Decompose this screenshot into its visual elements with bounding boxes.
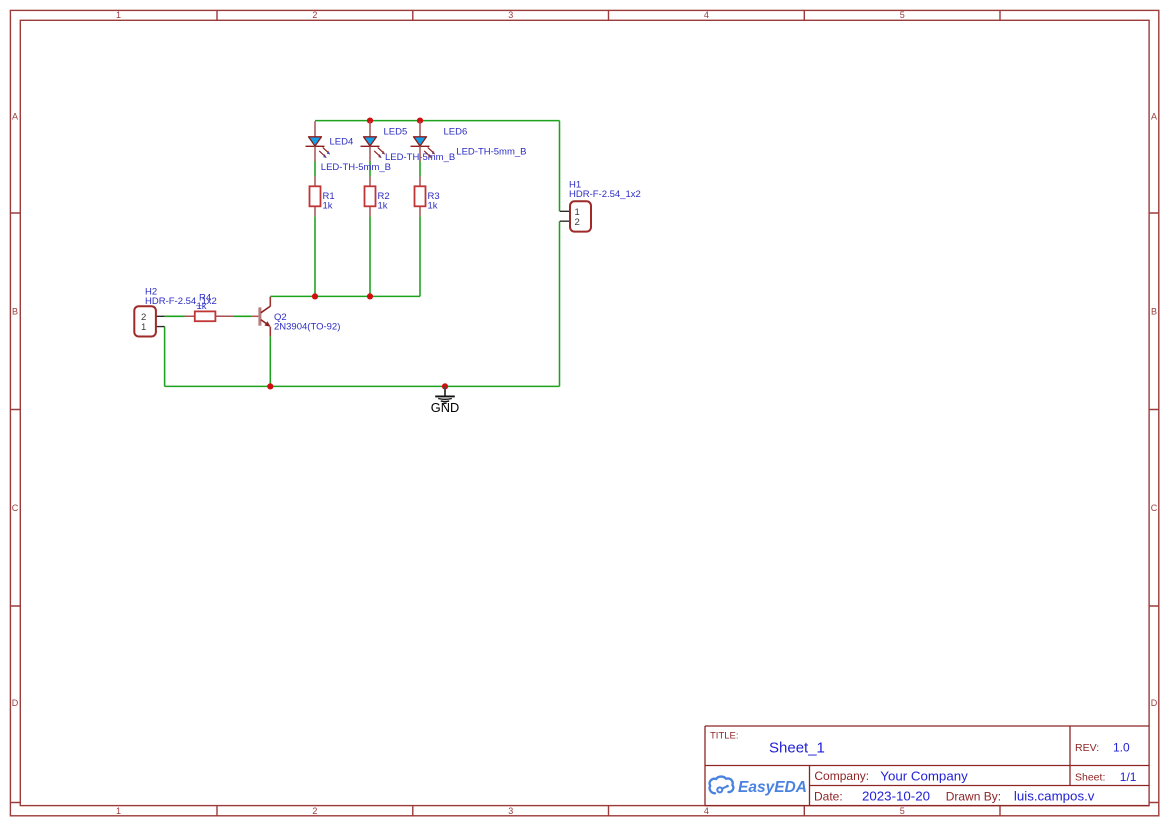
svg-text:D: D bbox=[12, 698, 19, 708]
svg-text:5: 5 bbox=[900, 10, 905, 20]
svg-text:Sheet:: Sheet: bbox=[1075, 772, 1105, 784]
svg-text:B: B bbox=[1151, 306, 1157, 316]
wire: LED4 cathode to R1 bbox=[314, 161, 316, 177]
svg-text:LED6: LED6 bbox=[444, 126, 468, 137]
LED LED6 bbox=[411, 121, 527, 161]
svg-text:4: 4 bbox=[704, 806, 709, 816]
title row divider bbox=[705, 765, 1149, 767]
svg-text:HDR-F-2.54_1x2: HDR-F-2.54_1x2 bbox=[569, 189, 641, 200]
logo cell divider bbox=[809, 766, 811, 806]
wire: H1 pin 2 down to ground bus bbox=[559, 221, 561, 386]
svg-text:1k: 1k bbox=[378, 201, 388, 212]
wire: collector bus bbox=[270, 295, 420, 297]
svg-text:GND: GND bbox=[431, 400, 459, 415]
wire: LED5 cathode to R2 bbox=[369, 161, 371, 177]
svg-text:C: C bbox=[12, 503, 19, 513]
svg-text:Your Company: Your Company bbox=[880, 768, 968, 783]
svg-text:3: 3 bbox=[508, 10, 513, 20]
svg-text:1k: 1k bbox=[323, 201, 333, 212]
svg-text:1.0: 1.0 bbox=[1113, 741, 1130, 755]
title block bbox=[705, 726, 1149, 806]
top ruler ticks bbox=[217, 10, 1000, 20]
svg-text:Drawn By:: Drawn By: bbox=[946, 789, 1001, 803]
svg-text:2: 2 bbox=[575, 217, 580, 228]
junction collector bus at R2 bbox=[367, 293, 373, 299]
junction ground bus at emitter bbox=[267, 383, 273, 389]
svg-text:Sheet_1: Sheet_1 bbox=[769, 740, 825, 757]
LED LED5 bbox=[361, 121, 456, 163]
junction collector bus at R1 bbox=[312, 293, 318, 299]
svg-text:1: 1 bbox=[116, 10, 121, 20]
resistor R4 bbox=[185, 292, 234, 321]
svg-text:1: 1 bbox=[141, 322, 146, 333]
wire: H2 pin 1 to ground bus bbox=[164, 327, 166, 387]
svg-text:LED-TH-5mm_B: LED-TH-5mm_B bbox=[321, 162, 391, 173]
wire: LED6 cathode to R3 bbox=[419, 161, 421, 177]
resistor R2 bbox=[365, 177, 390, 217]
wire: emitter to ground bus bbox=[269, 336, 271, 386]
resistor R3 bbox=[415, 177, 440, 217]
svg-text:LED4: LED4 bbox=[330, 137, 354, 148]
rev column divider bbox=[1069, 726, 1071, 786]
wire: R1 to collector bus bbox=[314, 216, 316, 296]
svg-text:1/1: 1/1 bbox=[1120, 770, 1137, 784]
svg-text:Date:: Date: bbox=[814, 789, 843, 803]
LED LED4 bbox=[306, 121, 392, 173]
header H1 bbox=[560, 179, 641, 231]
svg-text:EasyEDA: EasyEDA bbox=[738, 779, 807, 796]
svg-text:LED-TH-5mm_B: LED-TH-5mm_B bbox=[456, 146, 526, 157]
right ruler ticks bbox=[1149, 213, 1159, 803]
svg-text:Company:: Company: bbox=[814, 769, 869, 783]
svg-text:LED5: LED5 bbox=[384, 126, 408, 137]
svg-text:4: 4 bbox=[704, 10, 709, 20]
svg-text:5: 5 bbox=[900, 806, 905, 816]
svg-text:1: 1 bbox=[116, 806, 121, 816]
ground GND bbox=[431, 386, 459, 415]
junction ground bus at GND bbox=[442, 383, 448, 389]
bottom ruler ticks bbox=[217, 806, 1000, 816]
junction top bus at LED6 bbox=[417, 118, 423, 124]
transistor Q2 bbox=[252, 297, 341, 337]
svg-text:D: D bbox=[1151, 698, 1158, 708]
EasyEDA logo bbox=[710, 777, 807, 796]
svg-text:B: B bbox=[12, 306, 18, 316]
wire: R4 to Q2 base bbox=[234, 315, 252, 317]
title block outline bbox=[705, 726, 1149, 806]
svg-text:2: 2 bbox=[312, 10, 317, 20]
svg-text:2N3904(TO-92): 2N3904(TO-92) bbox=[274, 322, 340, 333]
svg-text:REV:: REV: bbox=[1075, 742, 1099, 754]
svg-text:luis.campos.v: luis.campos.v bbox=[1014, 789, 1095, 804]
svg-text:1k: 1k bbox=[428, 201, 438, 212]
wire: bottom ground bus bbox=[165, 385, 560, 387]
left ruler ticks bbox=[10, 213, 20, 803]
svg-text:2: 2 bbox=[312, 806, 317, 816]
wire: R2 to collector bus bbox=[369, 216, 371, 296]
header H2 bbox=[134, 286, 217, 336]
wire: vertical to H1 pin 1 bbox=[559, 121, 561, 212]
svg-text:A: A bbox=[1151, 112, 1157, 122]
svg-text:TITLE:: TITLE: bbox=[710, 731, 739, 742]
svg-text:C: C bbox=[1151, 503, 1158, 513]
svg-text:2023-10-20: 2023-10-20 bbox=[862, 789, 930, 804]
svg-text:A: A bbox=[12, 112, 18, 122]
svg-text:1k: 1k bbox=[197, 301, 207, 312]
company/date row divider bbox=[810, 785, 1150, 787]
wire: H2 pin 2 to R4 bbox=[165, 315, 185, 317]
circuit bbox=[134, 118, 641, 416]
junction top bus at LED5 bbox=[367, 118, 373, 124]
wire: R3 to collector bus bbox=[419, 216, 421, 296]
wire: top supply bus bbox=[315, 120, 560, 122]
svg-text:3: 3 bbox=[508, 806, 513, 816]
resistor R1 bbox=[310, 177, 335, 217]
